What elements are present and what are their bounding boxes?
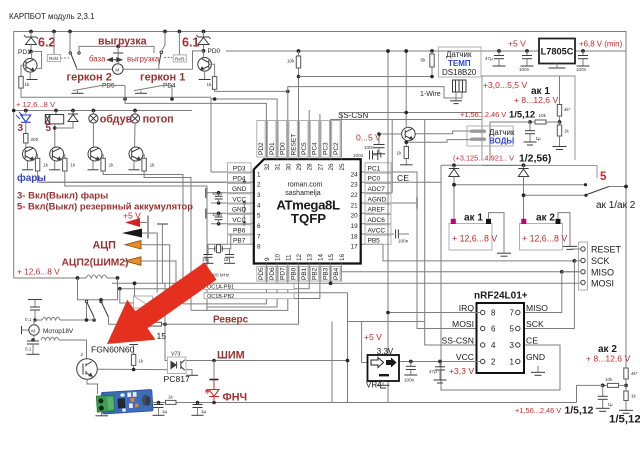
svg-text:1: 1 xyxy=(257,171,261,178)
pins xyxy=(186,360,348,362)
svg-text:18: 18 xyxy=(351,233,359,240)
svg-text:PD5: PD5 xyxy=(258,267,265,280)
svg-text:DS18B20: DS18B20 xyxy=(442,68,477,77)
svg-text:PD7: PD7 xyxy=(280,267,287,280)
svg-text:4: 4 xyxy=(257,202,261,209)
svg-text:Rel3: Rel3 xyxy=(175,56,185,61)
relay Rel3 xyxy=(164,57,173,59)
ISP connector xyxy=(579,242,588,290)
LED3 blue xyxy=(24,109,28,113)
reversing contacts xyxy=(78,278,118,300)
cap 18 left xyxy=(207,249,209,255)
wire VCC 3.3 xyxy=(399,361,480,363)
svg-text:7: 7 xyxy=(510,309,515,318)
svg-text:TQFP: TQFP xyxy=(291,211,326,226)
svg-text:32: 32 xyxy=(264,163,271,171)
svg-text:GND: GND xyxy=(526,352,545,362)
wire bottom pin stubs xyxy=(265,264,267,282)
svg-text:1k: 1k xyxy=(564,129,570,134)
MISO long line xyxy=(341,271,579,273)
svg-text:1/5,12: 1/5,12 xyxy=(509,109,535,120)
svg-text:9: 9 xyxy=(264,257,271,261)
svg-text:+ 12,6...8 V: + 12,6...8 V xyxy=(16,100,56,109)
svg-text:M: M xyxy=(115,68,119,73)
G_NRF xyxy=(332,49,548,402)
svg-text:PD6: PD6 xyxy=(269,267,276,280)
svg-text:PB0: PB0 xyxy=(290,267,297,280)
G_TOPSECTION xyxy=(18,32,290,98)
divider ак1: 4k* xyxy=(559,76,561,105)
svg-text:ак 1: ак 1 xyxy=(464,213,483,224)
emitter resistor 1k xyxy=(405,140,407,147)
svg-text:AREF: AREF xyxy=(368,207,385,214)
svg-text:PD0: PD0 xyxy=(280,142,287,155)
svg-text:23: 23 xyxy=(351,182,359,189)
svg-text:1µ: 1µ xyxy=(162,409,168,414)
svg-text:PD1: PD1 xyxy=(18,49,31,56)
optocoupler PC817 xyxy=(168,357,187,374)
svg-text:PC2: PC2 xyxy=(333,142,340,155)
svg-text:100n: 100n xyxy=(576,67,587,72)
svg-text:КАРПБОТ модуль 2,3.1: КАРПБОТ модуль 2,3.1 xyxy=(9,12,95,21)
relay Rel4 xyxy=(53,32,55,55)
svg-text:5k: 5k xyxy=(421,58,427,63)
DS18B20 sensor symbol xyxy=(453,80,467,92)
resistor 1k base Q_PD1 xyxy=(21,65,26,76)
svg-text:8: 8 xyxy=(257,244,261,251)
black tap xyxy=(122,229,142,238)
svg-text:nRF24L01+: nRF24L01+ xyxy=(474,291,528,302)
G_LABELSTACK xyxy=(62,211,177,299)
module ground xyxy=(101,411,103,416)
svg-text:4k*: 4k* xyxy=(631,371,638,376)
svg-text:PD4: PD4 xyxy=(233,176,246,183)
cap 1u xyxy=(602,385,604,396)
big red arrow pointer xyxy=(107,262,217,344)
svg-text:AGND: AGND xyxy=(368,196,387,203)
resistor 1k xyxy=(559,122,561,125)
svg-text:1k: 1k xyxy=(150,163,156,168)
G_TEMP xyxy=(287,39,623,121)
G_BOTTOM xyxy=(14,267,640,426)
wire PD2 to reed xyxy=(125,85,266,120)
svg-text:PD1: PD1 xyxy=(269,142,276,155)
svg-text:АЦП: АЦП xyxy=(93,239,117,251)
cap 0,1 top + motor xyxy=(28,299,42,301)
svg-text:1k: 1k xyxy=(25,82,31,87)
top pin label boxes (rotated) xyxy=(257,121,340,158)
diode 6.2 PD1 xyxy=(30,32,32,38)
svg-text:2: 2 xyxy=(257,182,261,189)
svg-text:MISO: MISO xyxy=(591,267,614,277)
resistor 10k pullup xyxy=(297,49,301,53)
svg-text:30: 30 xyxy=(285,163,292,171)
diode flyback xyxy=(71,109,75,113)
G_BATT xyxy=(441,163,636,328)
LED ФНЧ xyxy=(213,397,215,403)
svg-text:PD5: PD5 xyxy=(102,83,115,90)
resistor 1k horizontal on Revers line xyxy=(150,322,162,326)
svg-text:PC3: PC3 xyxy=(322,142,329,155)
svg-text:1k: 1k xyxy=(70,163,76,168)
svg-text:3: 3 xyxy=(257,192,261,199)
svg-text:14: 14 xyxy=(317,253,324,261)
svg-text:47µ: 47µ xyxy=(429,369,437,374)
contact switch left (выгрузка) xyxy=(69,32,71,52)
svg-text:PB7: PB7 xyxy=(233,238,246,245)
transistor Q_PD0 xyxy=(203,51,205,58)
svg-text:8: 8 xyxy=(491,309,496,318)
reed switch 1 xyxy=(134,85,163,90)
G_XTAL xyxy=(202,234,235,278)
sense wire xyxy=(577,385,603,402)
box Датчик ТЕМП xyxy=(439,47,482,77)
charge line xyxy=(441,164,524,166)
svg-text:PB5: PB5 xyxy=(368,238,381,245)
svg-text:5: 5 xyxy=(46,123,52,134)
node dots top border xyxy=(29,30,33,34)
svg-text:+5 V: +5 V xyxy=(364,332,382,342)
svg-text:+ 8...12,6 V: + 8...12,6 V xyxy=(514,95,558,105)
svg-text:1/2,56): 1/2,56) xyxy=(519,154,551,165)
svg-text:+1,56...2,46 V: +1,56...2,46 V xyxy=(515,406,561,415)
left pin wires xyxy=(211,171,254,173)
wire top +12.6V rail / border xyxy=(14,32,626,369)
svg-text:6.2: 6.2 xyxy=(38,36,55,50)
svg-text:АЦП2(ШИМ2): АЦП2(ШИМ2) xyxy=(62,257,129,268)
svg-text:15: 15 xyxy=(157,331,167,341)
svg-text:100n: 100n xyxy=(404,378,415,383)
cap 1u xyxy=(529,122,531,131)
svg-text:V73: V73 xyxy=(171,352,180,358)
svg-text:100n: 100n xyxy=(212,191,223,196)
switch ак1/ак2 xyxy=(584,183,587,186)
svg-text:1µ: 1µ xyxy=(536,136,542,141)
resistor 1k Q_PD0 xyxy=(209,64,215,76)
transistor water xyxy=(402,127,416,141)
svg-text:100n: 100n xyxy=(519,67,530,72)
bracket выгрузка xyxy=(79,46,154,53)
svg-text:5: 5 xyxy=(510,325,515,334)
transistor T3 xyxy=(88,147,102,161)
svg-text:7: 7 xyxy=(257,233,261,240)
node rail/border junction xyxy=(12,109,16,113)
ground GND pin1 xyxy=(537,366,539,372)
svg-text:sashamelja: sashamelja xyxy=(285,190,321,197)
diode batt1 xyxy=(453,165,455,168)
svg-text:15: 15 xyxy=(328,253,335,261)
svg-text:ак 2: ак 2 xyxy=(536,213,555,224)
svg-text:PB2: PB2 xyxy=(312,267,319,280)
cap 47u xyxy=(439,362,441,367)
wire PC5 stub xyxy=(308,110,310,121)
coil bottom xyxy=(41,337,59,340)
svg-text:2: 2 xyxy=(81,352,84,357)
svg-text:3: 3 xyxy=(18,123,24,134)
svg-text:6.1: 6.1 xyxy=(182,36,199,50)
svg-text:PD2: PD2 xyxy=(258,142,265,155)
svg-text:1k: 1k xyxy=(397,151,403,156)
svg-text:M: M xyxy=(31,328,35,333)
svg-text:+ 12,6...8 V: + 12,6...8 V xyxy=(17,267,60,277)
svg-text:база: база xyxy=(89,55,106,64)
wire PC2 stub xyxy=(341,113,482,121)
svg-text:+5 V: +5 V xyxy=(508,39,526,49)
svg-text:MOSI: MOSI xyxy=(591,278,614,288)
svg-text:roman.com: roman.com xyxy=(287,181,322,188)
diode batt2 xyxy=(523,165,525,168)
svg-text:PB6: PB6 xyxy=(233,227,246,234)
svg-text:GND: GND xyxy=(232,207,247,214)
transistor T4 xyxy=(129,147,143,161)
svg-text:13: 13 xyxy=(307,253,314,261)
svg-text:21: 21 xyxy=(351,202,359,209)
svg-text:ак 1/ак 2: ак 1/ак 2 xyxy=(596,200,636,211)
cap 1u left xyxy=(158,403,160,405)
svg-text:AVCC: AVCC xyxy=(368,227,386,234)
G_LAMPROW xyxy=(12,100,252,310)
svg-text:L7805C: L7805C xyxy=(541,46,574,56)
svg-text:47µ: 47µ xyxy=(485,56,493,61)
svg-text:2: 2 xyxy=(491,358,496,367)
series resistor xyxy=(166,400,177,404)
transistor Q_PD1 xyxy=(31,52,33,59)
G_MCU xyxy=(41,85,579,390)
cap 18 right xyxy=(229,249,231,255)
svg-text:5: 5 xyxy=(257,213,261,220)
svg-text:PC1: PC1 xyxy=(368,165,381,172)
svg-text:RESET: RESET xyxy=(591,245,622,255)
svg-text:PC5: PC5 xyxy=(301,142,308,155)
coil top xyxy=(35,319,42,321)
lamp потоп xyxy=(133,109,137,113)
svg-text:+6,8 V (min): +6,8 V (min) xyxy=(579,39,623,48)
contact switch right xyxy=(160,51,163,54)
svg-text:1µ: 1µ xyxy=(608,402,614,407)
svg-text:PD4: PD4 xyxy=(163,83,176,90)
svg-text:19: 19 xyxy=(351,223,359,230)
cap 0,1 bottom xyxy=(31,338,35,342)
transistor T2 xyxy=(50,147,64,161)
svg-text:4: 4 xyxy=(491,341,496,350)
водяной датчик box xyxy=(467,126,513,146)
ground under Q_PD1 xyxy=(29,72,31,79)
svg-text:25: 25 xyxy=(339,163,346,171)
svg-text:IRQ: IRQ xyxy=(459,303,475,313)
pin numbers bottom xyxy=(264,253,346,261)
svg-text:10: 10 xyxy=(275,253,282,261)
svg-text:29: 29 xyxy=(296,163,303,171)
frame ак1 section xyxy=(482,76,575,160)
svg-text:Реверс: Реверс xyxy=(213,314,249,325)
resistor 5k pullup xyxy=(430,49,434,53)
svg-text:20: 20 xyxy=(351,213,359,220)
cap 100n xyxy=(410,362,412,367)
vertical SCK к пину 5 xyxy=(520,261,574,329)
bottom wire xyxy=(151,402,577,404)
svg-text:SCK: SCK xyxy=(526,319,544,329)
pin numbers top xyxy=(264,163,346,171)
svg-text:22: 22 xyxy=(351,192,359,199)
svg-text:+ 12,6...8 V: + 12,6...8 V xyxy=(522,234,567,244)
svg-text:+1,56...2,46 V: +1,56...2,46 V xyxy=(460,110,506,119)
G_WATER xyxy=(353,49,597,178)
svg-text:1k: 1k xyxy=(631,394,637,399)
wire +12.6V row to lamps xyxy=(14,110,192,112)
svg-text:PD0: PD0 xyxy=(208,48,221,55)
cap 100n output xyxy=(581,49,585,53)
bottom pin label boxes (rotated) xyxy=(257,267,340,282)
left pin label boxes xyxy=(228,163,252,245)
right pin wires xyxy=(361,172,481,329)
svg-text:ФНЧ: ФНЧ xyxy=(223,391,248,403)
svg-text:ADC6: ADC6 xyxy=(368,217,386,224)
pin numbers right xyxy=(351,171,359,250)
svg-text:ШИМ: ШИМ xyxy=(217,349,245,361)
svg-text:1k: 1k xyxy=(168,395,174,400)
svg-text:SCK: SCK xyxy=(591,256,610,266)
MOSI long line xyxy=(112,282,579,284)
svg-text:100n: 100n xyxy=(398,239,409,244)
svg-text:обдув: обдув xyxy=(100,113,133,125)
wire PD0 1-wire data xyxy=(288,87,462,121)
svg-text:PC4: PC4 xyxy=(312,142,319,155)
svg-text:31: 31 xyxy=(275,163,282,171)
svg-text:27: 27 xyxy=(317,163,324,171)
svg-text:0,1: 0,1 xyxy=(25,347,32,352)
svg-text:12: 12 xyxy=(296,253,303,261)
MCU body ATmega8L xyxy=(254,159,361,263)
svg-text:17: 17 xyxy=(351,244,359,251)
svg-text:Rel4: Rel4 xyxy=(49,56,59,61)
wire L7805 out to border xyxy=(575,50,626,52)
svg-text:CE: CE xyxy=(526,336,538,346)
svg-text:6: 6 xyxy=(257,223,261,230)
svg-text:потоп: потоп xyxy=(143,113,174,125)
svg-text:1/5,12: 1/5,12 xyxy=(565,406,594,417)
svg-text:5- Вкл(Выкл) резервный аккумул: 5- Вкл(Выкл) резервный аккумулятор xyxy=(17,200,193,211)
gate resistor 1k with open bar xyxy=(129,344,138,346)
reed switch 2 xyxy=(73,85,102,90)
cap 100n xyxy=(526,51,528,56)
svg-text:CE: CE xyxy=(397,173,409,183)
svg-text:1k: 1k xyxy=(207,82,213,87)
svg-text:GND: GND xyxy=(232,186,247,193)
svg-text:24: 24 xyxy=(351,171,359,178)
svg-text:0,1: 0,1 xyxy=(25,317,32,322)
transistor T1 xyxy=(23,147,37,161)
svg-text:10k: 10k xyxy=(539,113,547,118)
svg-text:28: 28 xyxy=(307,163,314,171)
svg-text:+3,0...5,5 V: +3,0...5,5 V xyxy=(483,80,527,90)
cap 47u xyxy=(498,51,500,56)
svg-text:1k: 1k xyxy=(109,163,115,168)
svg-text:PB4: PB4 xyxy=(333,267,340,280)
svg-text:+ 12,6...8 V: + 12,6...8 V xyxy=(452,234,497,244)
svg-text:VCC: VCC xyxy=(232,217,246,224)
crystal 4MHz xyxy=(217,245,221,253)
svg-text:11: 11 xyxy=(285,254,292,261)
svg-text:100n: 100n xyxy=(212,212,223,217)
svg-text:(+3,125...4,921.. V: (+3,125...4,921.. V xyxy=(453,154,514,163)
svg-text:1µ: 1µ xyxy=(201,409,207,414)
svg-text:1: 1 xyxy=(510,358,515,367)
svg-text:100n: 100n xyxy=(353,153,364,158)
wire PB6 to crystal xyxy=(230,234,231,249)
wire top pin stubs xyxy=(265,121,267,160)
svg-text:26: 26 xyxy=(328,163,335,171)
svg-text:SS-CSN: SS-CSN xyxy=(442,336,474,346)
svg-text:1k: 1k xyxy=(43,163,49,168)
svg-text:PC0: PC0 xyxy=(368,176,381,183)
svg-text:3: 3 xyxy=(510,341,515,350)
selector lines xyxy=(454,184,586,186)
frame wires xyxy=(347,293,349,403)
caps 100n between rails xyxy=(217,191,221,195)
svg-text:MOSI: MOSI xyxy=(452,319,474,329)
right pin label boxes xyxy=(365,163,391,245)
svg-text:10k: 10k xyxy=(287,59,295,64)
svg-text:VCC: VCC xyxy=(456,352,474,362)
lamp обдув xyxy=(92,109,96,113)
svg-text:16: 16 xyxy=(339,253,346,261)
svg-text:4k*: 4k* xyxy=(564,107,571,112)
VCC link vertical xyxy=(243,203,245,224)
svg-text:PD3: PD3 xyxy=(233,165,246,172)
L7805C regulator xyxy=(539,39,575,64)
svg-text:RESET: RESET xyxy=(290,134,297,156)
GND end bars xyxy=(205,188,207,198)
relay coil bottom xyxy=(120,289,134,303)
resistor 200 xyxy=(25,122,27,133)
svg-text:PB1: PB1 xyxy=(301,267,308,280)
svg-text:18: 18 xyxy=(224,257,230,262)
arrows база/выгрузка xyxy=(108,58,113,62)
svg-text:6: 6 xyxy=(491,325,496,334)
wire PB7 to crystal xyxy=(208,244,218,248)
svg-text:VCC: VCC xyxy=(232,196,246,203)
motor M xyxy=(21,326,23,334)
svg-text:200: 200 xyxy=(31,137,39,142)
G_FRAME xyxy=(14,30,626,368)
svg-text:выгрузка: выгрузка xyxy=(98,35,147,47)
diode 6.1 PD0 xyxy=(203,32,205,37)
svg-text:1/5,12: 1/5,12 xyxy=(609,414,640,426)
svg-text:1-Wire: 1-Wire xyxy=(420,91,441,98)
svg-text:1k: 1k xyxy=(138,359,144,364)
svg-text:Датчик: Датчик xyxy=(446,50,472,59)
relay coil 5 xyxy=(54,109,58,113)
wire +5V rail y=51 xyxy=(226,50,539,52)
wires to sensor xyxy=(415,131,470,134)
wire PC4 stub xyxy=(319,114,321,121)
wire SS-CSN net from PC3 xyxy=(331,120,482,121)
pin numbers left xyxy=(257,171,261,250)
svg-text:18: 18 xyxy=(202,257,208,262)
svg-text:10k: 10k xyxy=(605,377,613,382)
svg-text:+3,3 V: +3,3 V xyxy=(449,366,474,376)
ground Q_PD0 xyxy=(204,71,206,79)
svg-text:ТЕМП: ТЕМП xyxy=(448,59,471,68)
svg-text:ВОДЫ: ВОДЫ xyxy=(489,137,514,146)
svg-text:OC1A-PB1: OC1A-PB1 xyxy=(207,285,234,291)
svg-text:5: 5 xyxy=(600,171,607,183)
svg-text:OC1B-PB2: OC1B-PB2 xyxy=(207,294,234,300)
svg-text:FGN60N60: FGN60N60 xyxy=(91,345,135,355)
svg-text:выгрузка: выгрузка xyxy=(127,55,160,64)
svg-text:PB3: PB3 xyxy=(322,267,329,280)
wire PD1 top rail y=99 xyxy=(211,99,277,121)
